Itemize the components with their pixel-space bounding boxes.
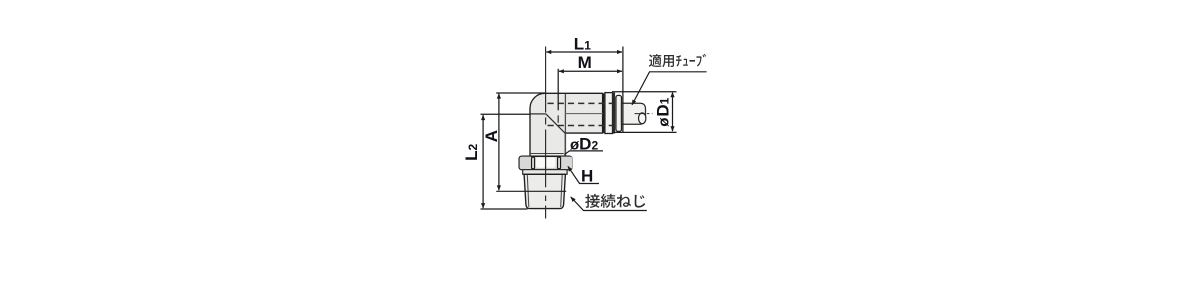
thread root line left — [527, 175, 529, 207]
ext line A top — [496, 92, 545, 94]
elbow body outline — [530, 93, 603, 156]
tube axis centerline — [635, 113, 653, 115]
thread root line right — [561, 175, 563, 207]
hex facet line left pair — [532, 157, 535, 169]
collar top shoulder line above hex — [530, 153, 564, 155]
ext line left M — [557, 69, 559, 111]
hex flat highlight pills — [536, 157, 545, 167]
svg-text:L1: L1 — [574, 35, 591, 54]
dim oD1 line — [672, 92, 674, 131]
svg-text:A: A — [482, 130, 501, 142]
shank band below hex — [523, 170, 567, 175]
dim M line — [559, 70, 622, 72]
barrel left face line — [564, 94, 566, 157]
ext line oD1 bottom — [612, 131, 677, 133]
elbow miter diagonal — [546, 114, 566, 134]
leader H underline — [568, 166, 599, 183]
hidden tube-stop dash under M ext — [557, 115, 559, 122]
svg-text:L2: L2 — [462, 144, 481, 161]
leader tekiyo underline — [632, 72, 707, 105]
barrel right end thick line — [603, 93, 605, 133]
collar dark band — [613, 93, 616, 134]
hex outer facet shading — [520, 157, 531, 170]
dim A line — [498, 94, 500, 191]
dim L2 line — [482, 115, 484, 208]
tube end face ellipse — [639, 113, 646, 124]
elbow miter horizontal line — [530, 113, 546, 115]
wire: vertical centerline of elbow axis (dash-dot segments) — [545, 47, 547, 219]
tube — [622, 103, 646, 124]
ext line L2 top — [481, 113, 530, 115]
barrel mid parting line — [565, 113, 613, 115]
hidden bore line lower (dashed) — [548, 125, 614, 127]
gauge plane line + A bottom ext — [496, 190, 566, 192]
ext line right shared L1 M — [622, 47, 624, 133]
svg-text:H: H — [581, 167, 593, 186]
leader setsuzoku underline — [571, 197, 647, 211]
ext line oD1 top — [612, 91, 677, 93]
thread (tapered male R thread) — [524, 174, 565, 208]
hex nut H body — [519, 156, 572, 169]
svg-text:øD1: øD1 — [654, 97, 673, 126]
ext line L2 bottom — [481, 208, 528, 210]
collar ring — [605, 93, 613, 134]
leader oD2 underline — [564, 151, 603, 155]
dim L1 line — [546, 51, 622, 53]
release button ring — [616, 95, 622, 131]
hex facet line right pair — [558, 157, 561, 169]
label tekiyo tube (適用チューブ) — [649, 54, 706, 67]
label setsuzoku neji (接続ねじ) — [585, 194, 645, 208]
hidden bore line upper (dashed) — [548, 102, 614, 104]
svg-text:M: M — [578, 53, 592, 72]
